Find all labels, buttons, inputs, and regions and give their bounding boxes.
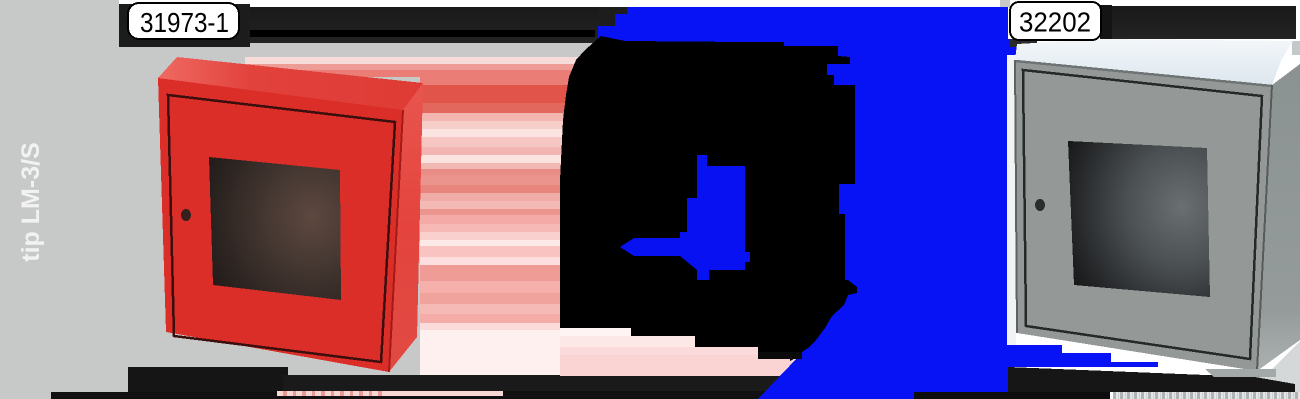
red cabinet front-side edge <box>389 110 403 372</box>
black shadow band under blob <box>537 376 790 392</box>
grey sliver under cabinet bottom right <box>1205 369 1276 377</box>
red cabinet door seam <box>168 95 395 362</box>
dark top band right <box>1102 6 1296 39</box>
grey left background panel <box>0 0 612 399</box>
svg-text:31973-1: 31973-1 <box>140 7 229 38</box>
dark band step 1 <box>598 7 615 26</box>
black bottom band right of blue <box>914 392 1110 399</box>
blue staircase under grey cabinet <box>987 345 1158 367</box>
blue right column <box>818 7 1008 399</box>
grey cabinet side face <box>1257 64 1300 371</box>
svg-text:32202: 32202 <box>1019 7 1091 38</box>
blue protrusion at cabinet top-left <box>1004 39 1017 55</box>
pink striated strip bottom <box>277 391 503 397</box>
black blob <box>560 36 857 361</box>
metallic corner far right <box>1292 41 1300 55</box>
grey cabinet left edge <box>1015 60 1017 333</box>
red cabinet lock <box>181 209 191 221</box>
white top strip <box>119 0 1007 7</box>
blue bottom wedge <box>758 310 818 399</box>
inner blue shape <box>620 155 750 280</box>
black bottom mid <box>503 391 775 399</box>
bottom-left black shadow band <box>128 367 288 399</box>
bottom shadow mid band <box>283 375 563 392</box>
black under pink strip <box>277 396 503 399</box>
grey cabinet door seam <box>1023 70 1262 359</box>
blue top band <box>598 7 1008 48</box>
striated bottom right <box>1113 392 1300 399</box>
svg-text:tip LM-3/S: tip LM-3/S <box>17 142 45 261</box>
grey cabinet front face <box>1015 60 1272 371</box>
shadow under grey cabinet <box>1008 367 1295 392</box>
white gap left of grey cabinet <box>1007 55 1016 345</box>
grey cabinet front-side edge <box>1257 85 1272 371</box>
dark band step 2 <box>615 7 627 14</box>
shadow step re-cover <box>1255 377 1295 392</box>
grey cabinet window <box>1068 141 1210 297</box>
dark patch under label right <box>1010 39 1037 47</box>
label 32202 <box>1010 2 1112 40</box>
pale pink bands under black blob <box>560 328 800 377</box>
dark top band left <box>245 7 598 43</box>
red cabinet front face <box>158 78 403 372</box>
light grey corner right of shadow <box>1255 341 1300 392</box>
grey cabinet top ridge edge <box>1015 61 1272 86</box>
grey cabinet top face <box>1015 39 1293 85</box>
label 31973-1 <box>119 0 250 47</box>
bottom black row far-left <box>51 392 281 399</box>
red cabinet window <box>209 157 341 300</box>
red cabinet top face <box>158 57 423 110</box>
light grey row under dark band <box>245 43 585 57</box>
smear stripes right of red cabinet <box>245 57 612 375</box>
grey cabinet lock <box>1035 199 1045 211</box>
black sliver over pink <box>758 352 802 359</box>
grey corner above label2 <box>1000 0 1010 7</box>
red cabinet side face <box>389 83 423 372</box>
